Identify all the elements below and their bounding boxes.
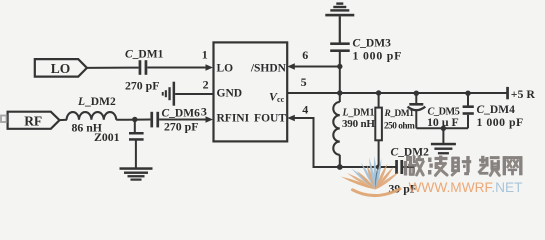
svg-text:L_DM1: L_DM1 <box>342 107 375 118</box>
node Vcc/C_DM4 <box>465 91 470 96</box>
wire LO to C_DM1 <box>87 67 139 69</box>
wire C_DM1 to pin 1 <box>147 67 207 69</box>
wire pin 4 out <box>294 118 396 167</box>
svg-text:4: 4 <box>302 103 308 117</box>
wire pin 6 to node <box>294 66 340 68</box>
svg-text:390 nH: 390 nH <box>342 118 375 130</box>
svg-text:C_DM4: C_DM4 <box>477 104 516 116</box>
wire rail to ground <box>442 128 444 143</box>
ground (inverted, above C_DM3) <box>325 2 354 16</box>
port RF <box>8 112 60 129</box>
node FOUT/R_DM1 <box>376 164 381 169</box>
svg-text:GND: GND <box>217 88 243 100</box>
capacitor shunt (RF matching) <box>129 132 144 141</box>
node FOUT/L_DM1 <box>337 164 343 170</box>
node Vcc/C_DM5 <box>414 91 419 96</box>
svg-text:270 pF: 270 pF <box>125 79 159 93</box>
scan smudge left edge <box>1 116 7 123</box>
svg-text:RFINI: RFINI <box>217 113 250 125</box>
svg-text:WWW.MWRF.NET: WWW.MWRF.NET <box>409 180 524 195</box>
arrow into pin 4 <box>287 115 295 122</box>
svg-text:1: 1 <box>202 48 208 62</box>
wire C_DM6 to pin 3 <box>159 119 207 121</box>
svg-text:270 pF: 270 pF <box>164 120 198 134</box>
svg-text:RF: RF <box>24 113 42 128</box>
capacitor C_DM4 <box>463 93 474 128</box>
node Vcc/L_DM1 <box>337 90 342 95</box>
svg-text:C_DM1: C_DM1 <box>125 48 164 60</box>
svg-text:250 ohm: 250 ohm <box>384 121 415 131</box>
ground (RF shunt) <box>120 167 153 180</box>
wire cap bottom rail <box>416 127 468 129</box>
wire C_DM2 output <box>403 166 414 168</box>
node Vcc/R_DM1 <box>376 90 381 95</box>
svg-text:/SHDN: /SHDN <box>250 63 287 75</box>
watermark fan logo <box>341 156 401 196</box>
svg-text:1 000 pF: 1 000 pF <box>477 115 524 129</box>
ground (sideways, pin 2 GND) <box>162 82 175 106</box>
arrow into pin 6 <box>287 63 295 70</box>
svg-text:FOUT: FOUT <box>254 113 286 125</box>
svg-text:LO: LO <box>51 61 71 76</box>
svg-text:3: 3 <box>201 105 207 119</box>
node pin6/C_DM3 <box>337 64 342 69</box>
svg-text:C_DM6: C_DM6 <box>162 107 201 119</box>
inductor L_DM1 <box>333 93 339 167</box>
capacitor C_DM6 <box>150 112 159 128</box>
svg-text:R_DM1: R_DM1 <box>384 109 415 119</box>
arrow into pin 3 <box>206 116 214 123</box>
capacitor C_DM2 (series) <box>395 160 403 174</box>
svg-text:Z001: Z001 <box>94 130 120 144</box>
capacitor C_DM1 <box>139 60 148 75</box>
inductor L_DM2 <box>67 112 117 120</box>
wire ground to C_DM3 <box>339 16 341 42</box>
svg-text:LO: LO <box>217 63 234 75</box>
terminal +5 bar <box>506 87 509 99</box>
svg-text:2: 2 <box>203 78 209 92</box>
svg-text:+5 R: +5 R <box>511 87 536 101</box>
resistor R_DM1 <box>375 93 382 167</box>
svg-text:5: 5 <box>301 75 307 89</box>
watermark text wei bo she pin wang <box>404 156 523 176</box>
ground (C_DM5/C_DM4) <box>431 143 456 155</box>
wire pin6 node to Vcc line <box>339 67 341 94</box>
node junction RF <box>132 117 137 122</box>
wire shunt cap to ground <box>135 141 137 168</box>
node rail/ground <box>441 126 446 131</box>
op-amp/mixer IC U1 box <box>214 42 288 141</box>
wire ground to pin 2 <box>175 93 213 95</box>
wire C_DM3 to pin6 node <box>339 52 341 67</box>
wire RF to L_DM2 <box>60 119 68 121</box>
svg-text:6: 6 <box>302 48 308 62</box>
svg-text:L_DM2: L_DM2 <box>77 96 116 108</box>
port LO <box>35 59 87 77</box>
wire L_DM2 to node <box>116 119 150 121</box>
arrow into pin 1 <box>206 64 214 71</box>
capacitor C_DM5 (electrolytic) <box>408 93 426 128</box>
wire node to shunt cap <box>134 120 136 133</box>
wire Vcc (pin 5) to +5 terminal <box>287 92 507 94</box>
svg-text:1 000 pF: 1 000 pF <box>353 49 403 63</box>
capacitor C_DM3 <box>330 42 350 52</box>
